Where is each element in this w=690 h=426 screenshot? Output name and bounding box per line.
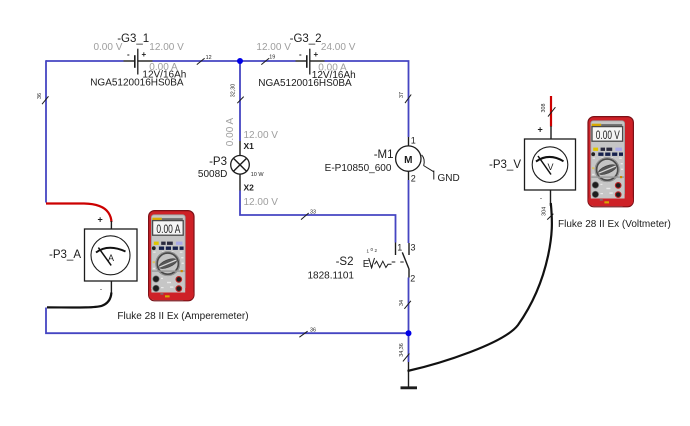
svg-text:12.00 V: 12.00 V (256, 42, 291, 53)
svg-text:M: M (404, 155, 412, 166)
svg-text:+: + (314, 50, 319, 59)
amperemeter plus terminal (98, 215, 112, 230)
svg-text:A: A (108, 253, 114, 263)
svg-text:24.00 V: 24.00 V (321, 42, 356, 53)
battery G3_1 (124, 49, 153, 75)
svg-text:V: V (547, 162, 553, 172)
svg-text:-M1: -M1 (374, 149, 394, 161)
voltmeter black lead (408, 203, 552, 371)
wire tick 33 (lamp to switch horizontal) (301, 210, 316, 220)
svg-text:19: 19 (269, 55, 275, 61)
battery G3_2 (296, 49, 325, 75)
wire tick 34,36 (below junction) (399, 343, 409, 361)
fluke multimeter voltmeter (588, 117, 633, 207)
voltmeter symbol box P3_V (525, 139, 576, 190)
svg-text:E-P10850_600: E-P10850_600 (325, 163, 392, 174)
wire tick 32,30 (lamp top wire) (231, 84, 244, 103)
svg-text:-P3: -P3 (209, 156, 227, 168)
switch S2 actuator E with spring (363, 258, 392, 270)
svg-text:·: · (100, 284, 103, 294)
svg-text:12.00 V: 12.00 V (244, 197, 279, 208)
amperemeter symbol box P3_A (85, 229, 138, 281)
svg-text:X1: X1 (244, 141, 255, 151)
wire: lamp bottom to switch pin 1 (240, 191, 396, 243)
wire: motor pin2 to switch pin 3 (408, 180, 410, 243)
motor M1 GND pigtail (422, 155, 434, 180)
amperemeter red lead (46, 204, 111, 223)
svg-text:+: + (142, 50, 147, 59)
svg-text:37: 37 (399, 92, 405, 98)
svg-text:34: 34 (399, 300, 405, 306)
svg-text:304: 304 (541, 207, 547, 216)
node: junction dot at top (240,61) (237, 58, 243, 64)
wire tick 34 (switch pin2 wire) (399, 300, 411, 309)
voltmeter minus terminal with tick 304 (540, 190, 554, 220)
switch S2 position labels 1 0 2 (367, 247, 378, 254)
wire: top middle segment between batteries (153, 60, 296, 62)
wire tick 12 (between G3_1 and junction) (197, 55, 212, 65)
svg-text:308: 308 (541, 104, 547, 113)
svg-text:Fluke 28 II Ex (Amperemeter): Fluke 28 II Ex (Amperemeter) (117, 311, 248, 322)
fluke multimeter amperemeter (149, 211, 194, 301)
amperemeter black lead (47, 293, 111, 308)
lamp P3 (231, 141, 250, 191)
wire: junction down to ground stub (408, 333, 410, 362)
svg-text:12: 12 (206, 55, 212, 61)
svg-text:0.00 A: 0.00 A (156, 222, 180, 236)
svg-text:GND: GND (438, 173, 460, 184)
svg-text:+: + (538, 125, 543, 135)
svg-text:12.00 V: 12.00 V (149, 42, 184, 53)
node: junction dot at bottom (408.5,333) (406, 330, 412, 336)
svg-text:-S2: -S2 (336, 256, 354, 268)
svg-text:+: + (98, 215, 103, 225)
wire tick 36 (bottom horizontal) (299, 328, 316, 338)
wire: vertical from junction to lamp (239, 61, 241, 141)
wire: switch pin2 down to bottom junction (408, 278, 410, 334)
svg-text:NGA5120016HS0BA: NGA5120016HS0BA (258, 78, 352, 89)
wire tick 36 (left vertical) (37, 93, 49, 104)
wire tick 37 (motor top wire) (399, 92, 411, 103)
svg-text:-: - (127, 50, 130, 59)
switch S2 (392, 243, 409, 278)
wire: bottom horizontal wire 36 (46, 308, 409, 334)
svg-text:-P3_A: -P3_A (49, 249, 81, 261)
svg-text:5008D: 5008D (198, 169, 227, 180)
svg-text:0.00 A: 0.00 A (225, 117, 236, 146)
voltmeter plus terminal (538, 125, 552, 140)
svg-text:3: 3 (411, 243, 416, 253)
wire: top-right segment battery G3_2 to corner and down to motor (325, 61, 409, 137)
svg-text:·: · (540, 193, 543, 203)
svg-text:36: 36 (37, 93, 43, 99)
svg-text:E: E (363, 259, 370, 270)
svg-text:1: 1 (397, 243, 402, 253)
amperemeter minus terminal (100, 281, 112, 294)
wire tick 19 (junction to G3_2) (261, 55, 275, 65)
motor M1 (396, 137, 421, 180)
svg-text:Fluke 28 II Ex (Voltmeter): Fluke 28 II Ex (Voltmeter) (558, 219, 671, 230)
svg-text:0.00 V: 0.00 V (596, 128, 620, 142)
wire: top-left horizontal segment (battery G3_1 left) (46, 60, 124, 62)
svg-text:NGA5120016HS0BA: NGA5120016HS0BA (90, 78, 184, 89)
svg-text:-G3_2: -G3_2 (290, 33, 322, 45)
svg-text:-P3_V: -P3_V (489, 159, 521, 171)
svg-text:2: 2 (410, 274, 415, 284)
svg-text:32,30: 32,30 (231, 84, 237, 98)
ground symbol (401, 362, 418, 388)
svg-text:12.00 V: 12.00 V (244, 130, 279, 141)
svg-text:1: 1 (411, 136, 416, 146)
voltmeter red lead with tick 308 (541, 96, 555, 127)
svg-text:34,36: 34,36 (399, 343, 405, 357)
svg-text:33: 33 (310, 210, 316, 216)
svg-text:36: 36 (310, 328, 316, 334)
svg-text:X2: X2 (244, 183, 255, 193)
svg-text:2: 2 (411, 174, 416, 184)
svg-text:-: - (299, 50, 302, 59)
svg-text:10 W: 10 W (251, 172, 265, 178)
svg-text:0.00 V: 0.00 V (93, 42, 122, 53)
svg-text:1828.1101: 1828.1101 (307, 271, 354, 282)
wire: left vertical wire 36 (45, 60, 47, 202)
